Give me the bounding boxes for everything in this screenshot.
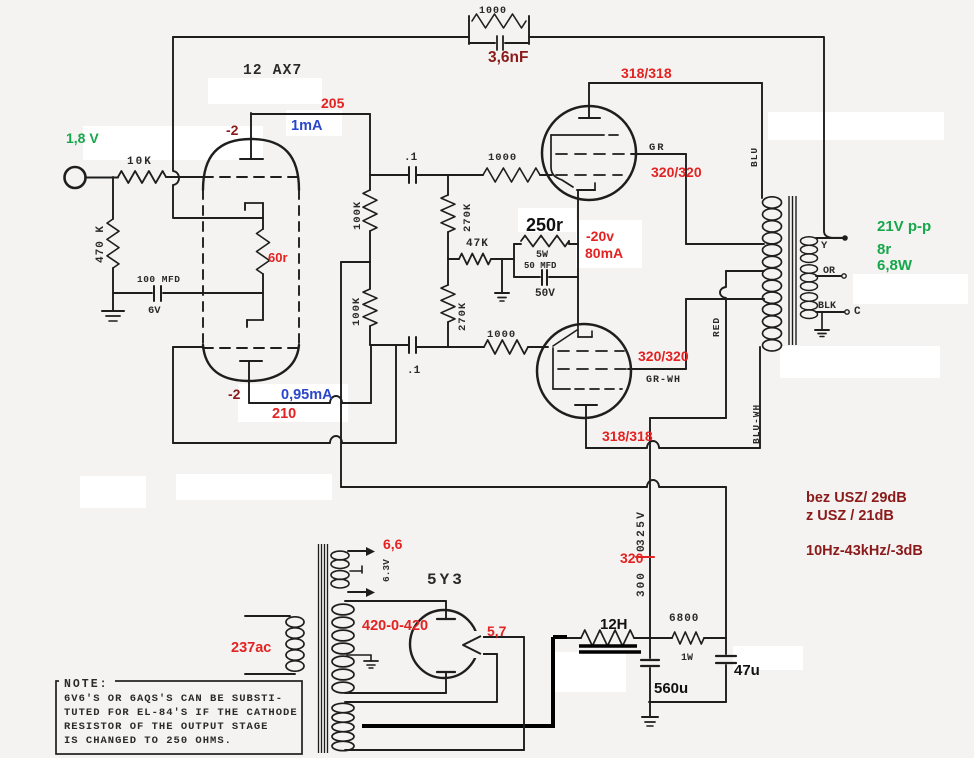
svg-text:100K: 100K (351, 297, 363, 326)
svg-text:325V: 325V (636, 510, 648, 546)
svg-text:320: 320 (620, 550, 644, 566)
svg-text:6V6'S OR 6AQS'S CAN BE SUBSTI-: 6V6'S OR 6AQS'S CAN BE SUBSTI- (64, 693, 283, 705)
svg-text:1mA: 1mA (291, 118, 323, 134)
svg-text:BLK: BLK (818, 301, 836, 312)
svg-text:100K: 100K (352, 201, 364, 230)
svg-text:12H: 12H (600, 616, 628, 633)
svg-text:3,6nF: 3,6nF (488, 49, 528, 66)
svg-text:21V p-p: 21V p-p (877, 218, 931, 235)
svg-text:RED: RED (711, 317, 722, 337)
svg-text:300: 300 (636, 571, 648, 597)
svg-text:NOTE:: NOTE: (64, 678, 109, 691)
svg-text:270K: 270K (457, 302, 469, 331)
svg-text:420-0-420: 420-0-420 (362, 618, 428, 634)
svg-text:10Hz-43kHz/-3dB: 10Hz-43kHz/-3dB (806, 543, 923, 559)
svg-text:C: C (854, 306, 861, 318)
svg-text:318/318: 318/318 (602, 428, 653, 444)
svg-text:OR: OR (823, 266, 835, 277)
svg-text:50 MFD: 50 MFD (524, 261, 557, 271)
svg-text:1000: 1000 (487, 329, 516, 341)
svg-text:80mA: 80mA (585, 245, 623, 261)
svg-text:z USZ / 21dB: z USZ / 21dB (806, 508, 894, 524)
svg-text:bez USZ/ 29dB: bez USZ/ 29dB (806, 490, 907, 506)
svg-text:0,95mA: 0,95mA (281, 387, 333, 403)
svg-text:1,8 V: 1,8 V (66, 130, 99, 146)
svg-text:Y: Y (821, 240, 828, 252)
svg-text:RESISTOR OF THE OUTPUT STAGE: RESISTOR OF THE OUTPUT STAGE (64, 721, 268, 733)
svg-text:IS CHANGED TO 250 OHMS.: IS CHANGED TO 250 OHMS. (64, 735, 232, 747)
svg-text:12 AX7: 12 AX7 (243, 63, 302, 79)
svg-text:1000: 1000 (488, 152, 517, 164)
svg-text:5Y3: 5Y3 (427, 571, 465, 589)
svg-text:237ac: 237ac (231, 640, 271, 656)
svg-text:5W: 5W (536, 250, 548, 261)
svg-text:47u: 47u (734, 662, 760, 679)
svg-text:320/320: 320/320 (638, 348, 689, 364)
svg-text:6,6: 6,6 (383, 536, 403, 552)
svg-text:205: 205 (321, 95, 345, 111)
svg-text:50V: 50V (535, 288, 555, 300)
svg-text:.1: .1 (404, 152, 418, 164)
svg-text:6.3V: 6.3V (381, 559, 392, 582)
svg-text:210: 210 (272, 406, 296, 422)
svg-text:.1: .1 (407, 365, 421, 377)
svg-text:GR: GR (649, 142, 666, 154)
svg-text:320/320: 320/320 (651, 164, 702, 180)
svg-text:47K: 47K (466, 238, 489, 250)
svg-text:100 MFD: 100 MFD (137, 274, 180, 285)
svg-text:-20v: -20v (586, 228, 614, 244)
svg-text:GR-WH: GR-WH (646, 375, 681, 386)
svg-text:318/318: 318/318 (621, 65, 672, 81)
svg-text:560u: 560u (654, 680, 688, 697)
svg-text:1000: 1000 (479, 6, 507, 17)
svg-text:BLU: BLU (749, 147, 760, 167)
svg-text:250r: 250r (526, 215, 563, 235)
svg-text:6V: 6V (148, 305, 161, 317)
svg-text:TUTED FOR EL-84'S IF THE CATHO: TUTED FOR EL-84'S IF THE CATHODE (64, 707, 298, 719)
svg-text:5,7: 5,7 (487, 623, 507, 639)
svg-text:270K: 270K (462, 203, 474, 232)
svg-text:BLU-WH: BLU-WH (751, 404, 762, 444)
svg-text:6,8W: 6,8W (877, 257, 913, 274)
svg-text:470 K: 470 K (95, 225, 107, 263)
svg-text:6800: 6800 (669, 613, 699, 625)
svg-text:10K: 10K (127, 156, 153, 168)
svg-text:1W: 1W (681, 653, 693, 664)
svg-text:-2: -2 (228, 386, 241, 402)
svg-text:8r: 8r (877, 241, 891, 258)
svg-text:60r: 60r (268, 250, 288, 265)
svg-text:-2: -2 (226, 122, 239, 138)
